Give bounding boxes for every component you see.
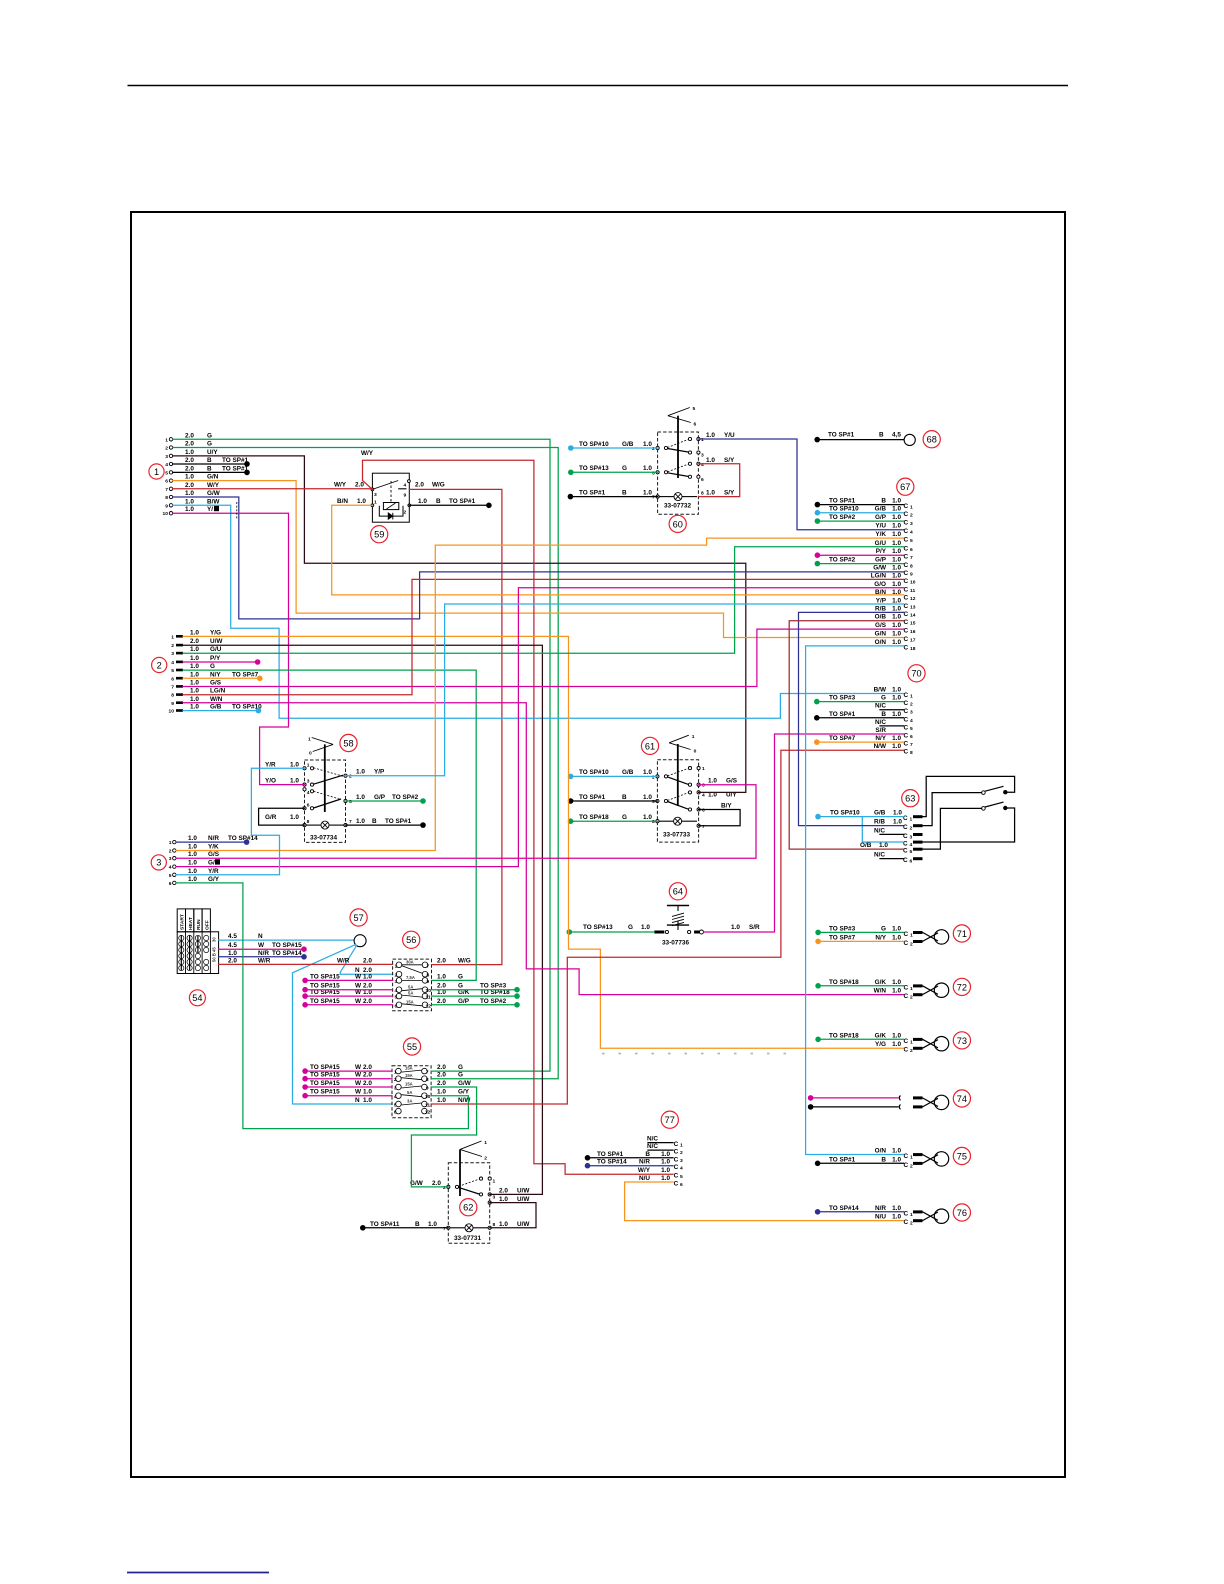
svg-text:1.0: 1.0 [892, 605, 901, 612]
svg-text:G/S: G/S [875, 622, 887, 629]
wire 54 W to SP#15 [219, 946, 307, 952]
60 right labels [701, 432, 735, 497]
svg-text:C: C [904, 741, 909, 748]
svg-text:N/C: N/C [874, 827, 885, 834]
svg-text:G: G [881, 925, 886, 932]
svg-text:1.0: 1.0 [892, 1148, 901, 1155]
svg-text:G: G [628, 924, 633, 931]
svg-text:3: 3 [156, 858, 161, 868]
svg-text:0: 0 [309, 751, 312, 757]
svg-text:10: 10 [163, 511, 169, 517]
switch 62 [447, 1140, 492, 1243]
wire G/U conn2 pin3 to 67 C6 [183, 547, 904, 653]
svg-text:TO SP#2: TO SP#2 [829, 514, 856, 521]
wire G/N conn1 pin6 to 67 C17 [173, 481, 904, 638]
svg-text:3: 3 [680, 1158, 683, 1164]
svg-text:3: 3 [701, 453, 704, 459]
svg-text:16: 16 [910, 629, 916, 635]
56 circle label [403, 931, 420, 948]
svg-text:2.0: 2.0 [363, 1072, 372, 1079]
svg-text:1.0: 1.0 [892, 597, 901, 604]
svg-text:33-07736: 33-07736 [662, 940, 689, 947]
63 pins and pads [903, 815, 923, 865]
oil pressure switch 2 [982, 802, 1008, 810]
svg-text:C: C [674, 1173, 679, 1180]
svg-text:G: G [210, 663, 215, 670]
svg-text:1.0: 1.0 [188, 844, 197, 851]
svg-text:1.0: 1.0 [892, 506, 901, 513]
svg-text:U/Y: U/Y [207, 449, 218, 456]
svg-text:TO SP#1: TO SP#1 [829, 498, 856, 505]
svg-text:W/Y: W/Y [361, 450, 374, 457]
svg-text:4: 4 [910, 718, 913, 724]
svg-text:C: C [904, 1047, 909, 1054]
svg-text:TO SP#10: TO SP#10 [579, 441, 609, 448]
svg-text:1.0: 1.0 [290, 778, 299, 785]
svg-text:2.0: 2.0 [190, 638, 199, 645]
svg-text:3A: 3A [407, 1099, 412, 1104]
connector 57 [354, 935, 366, 947]
wire 64 G to SP#13 [567, 929, 655, 935]
svg-text:2.0: 2.0 [363, 958, 372, 965]
svg-text:P/Y: P/Y [876, 548, 887, 555]
svg-text:C: C [904, 570, 909, 577]
svg-text:1: 1 [171, 634, 174, 640]
svg-text:TO SP#10: TO SP#10 [830, 810, 860, 817]
svg-text:B/Y: B/Y [721, 803, 732, 810]
svg-text:G/W: G/W [873, 564, 887, 571]
64 circle label [669, 883, 686, 900]
svg-text:5A: 5A [408, 991, 413, 996]
wire 56 pin5 W to SP#15 [302, 993, 392, 999]
svg-text:1.0: 1.0 [185, 498, 194, 505]
svg-text:63: 63 [905, 794, 915, 804]
svg-text:1: 1 [484, 1140, 487, 1146]
wire 56 pin12 G/P to SP#2 [432, 1002, 520, 1008]
wire 56 pin11 G/K to SP#18 [432, 993, 520, 999]
svg-text:5: 5 [394, 1103, 397, 1109]
svg-text:1.0: 1.0 [356, 769, 365, 776]
wire 63 C4 to switch2 [923, 808, 1015, 842]
wire G/O conn3 pin4 to 67 C11 [176, 588, 904, 867]
svg-text:17: 17 [910, 638, 916, 644]
svg-text:C: C [674, 1156, 679, 1163]
svg-text:2: 2 [910, 1221, 913, 1227]
wire conn2 pin10 G/B to SP#10 [183, 708, 261, 714]
svg-text:Y/U: Y/U [724, 432, 735, 439]
svg-text:1.0: 1.0 [879, 842, 888, 849]
svg-text:TO SP#18: TO SP#18 [829, 979, 859, 986]
svg-text:1.0: 1.0 [356, 818, 365, 825]
svg-text:Y/R: Y/R [265, 761, 276, 768]
svg-text:TO SP#14: TO SP#14 [829, 1205, 859, 1212]
svg-text:1.0: 1.0 [290, 761, 299, 768]
wire conn1 pin4 B to SP#1 [173, 461, 250, 467]
svg-text:12: 12 [426, 1003, 432, 1009]
svg-text:TO SP#15: TO SP#15 [310, 1080, 340, 1087]
wire 73 C1 G/K to SP#18 [815, 1037, 903, 1043]
svg-text:2.0: 2.0 [432, 1180, 441, 1187]
svg-text:1.0: 1.0 [363, 1089, 372, 1096]
svg-text:1: 1 [493, 1179, 496, 1185]
wire 74 C1 [808, 1095, 898, 1101]
64 labels [583, 924, 760, 931]
connector 67 labels [829, 498, 901, 646]
svg-text:G/B: G/B [210, 704, 222, 711]
svg-text:5A: 5A [408, 984, 413, 989]
svg-text:W/Y: W/Y [334, 482, 347, 489]
wire G/S conn2 pin7 to 67 C16 [183, 629, 904, 686]
wire N/W 55 pin11 to 70 C8 [431, 750, 903, 1104]
61 right labels [702, 766, 738, 830]
svg-text:2.0: 2.0 [499, 1187, 508, 1194]
55 left labels [310, 1064, 372, 1104]
svg-text:3: 3 [702, 783, 705, 789]
svg-text:1: 1 [165, 437, 168, 443]
svg-text:2: 2 [443, 1185, 446, 1191]
svg-text:3: 3 [374, 492, 377, 498]
svg-text:C: C [904, 603, 909, 610]
wire 71 C1 G to SP#3 [815, 930, 903, 936]
svg-text:B: B [879, 432, 884, 439]
wire 58 pin7 B to SP#1 [346, 822, 426, 828]
wire W/G 59 pin4 to 56 pin7 [409, 489, 502, 964]
svg-text:TO SP#1: TO SP#1 [829, 711, 856, 718]
wire 55 pin4 W to SP#15 [302, 1093, 392, 1099]
svg-text:TO SP#1: TO SP#1 [449, 498, 476, 505]
svg-text:N: N [355, 1097, 360, 1104]
svg-text:G/N: G/N [207, 474, 219, 481]
77 N/C stubs [648, 1143, 673, 1151]
svg-text:G/P: G/P [374, 794, 386, 801]
connector 70 labels [829, 687, 901, 751]
svg-text:TO SP#18: TO SP#18 [829, 1032, 859, 1039]
svg-text:W/G: W/G [458, 958, 471, 965]
svg-text:8: 8 [171, 693, 174, 699]
svg-text:B/N: B/N [337, 498, 348, 505]
wire 63 C2 to switch1 [923, 793, 982, 826]
svg-text:2: 2 [349, 774, 352, 780]
svg-text:9: 9 [910, 571, 913, 577]
svg-text:1.0: 1.0 [188, 876, 197, 883]
svg-text:C: C [904, 520, 909, 527]
svg-text:2: 2 [169, 849, 172, 855]
svg-text:B: B [436, 498, 441, 505]
svg-text:9: 9 [427, 979, 430, 985]
wire O/N 67 C18 to 75 C1 [806, 646, 904, 1155]
svg-text:77: 77 [665, 1115, 675, 1125]
svg-text:6: 6 [680, 1182, 683, 1188]
svg-text:4: 4 [680, 1166, 683, 1172]
svg-text:8: 8 [910, 564, 913, 570]
svg-text:G: G [622, 814, 627, 821]
svg-text:C: C [904, 528, 909, 535]
svg-text:C: C [904, 511, 909, 518]
svg-text:3: 3 [910, 710, 913, 716]
svg-text:1.0: 1.0 [190, 663, 199, 670]
svg-text:G: G [207, 441, 212, 448]
svg-text:G: G [881, 695, 886, 702]
svg-text:W: W [355, 1064, 362, 1071]
svg-text:G/B: G/B [622, 769, 634, 776]
svg-text:C: C [674, 1181, 679, 1188]
svg-text:2: 2 [910, 1048, 913, 1054]
svg-text:6: 6 [701, 477, 704, 483]
svg-text:O/N: O/N [875, 1148, 887, 1155]
svg-text:C: C [904, 984, 909, 991]
svg-text:C: C [904, 1210, 909, 1217]
wire LG/N conn2 pin8 to 67 C10 [183, 579, 904, 694]
svg-text:2: 2 [165, 446, 168, 452]
svg-text:1.0: 1.0 [893, 819, 902, 826]
svg-text:1.0: 1.0 [892, 639, 901, 646]
60 circle label [669, 515, 686, 532]
svg-text:1.0: 1.0 [185, 474, 194, 481]
svg-text:G/B: G/B [875, 506, 887, 513]
svg-text:P/Y: P/Y [210, 655, 221, 662]
svg-text:6: 6 [702, 808, 705, 814]
svg-text:6: 6 [395, 1003, 398, 1009]
svg-text:64: 64 [673, 887, 683, 897]
connector 77 labels [597, 1136, 670, 1182]
svg-text:W/Y: W/Y [207, 482, 220, 489]
svg-text:1.0: 1.0 [892, 614, 901, 621]
svg-text:B: B [622, 489, 627, 496]
svg-text:1: 1 [308, 737, 311, 743]
svg-text:1.0: 1.0 [190, 655, 199, 662]
svg-text:G: G [458, 1064, 463, 1071]
svg-text:1.0: 1.0 [892, 925, 901, 932]
wire conn3 pin1 N/R to SP#14 [176, 839, 249, 845]
svg-text:RUN: RUN [196, 919, 202, 930]
svg-text:2: 2 [910, 702, 913, 708]
svg-text:5: 5 [349, 799, 352, 805]
wire 61 pin5 B to SP#1 [568, 798, 658, 804]
svg-text:1.0: 1.0 [290, 814, 299, 821]
svg-text:15A: 15A [405, 1066, 413, 1071]
svg-text:Y/G: Y/G [875, 1041, 886, 1048]
svg-text:1.0: 1.0 [643, 794, 652, 801]
svg-text:S/R: S/R [875, 727, 886, 734]
svg-text:C: C [904, 692, 909, 699]
svg-text:2: 2 [404, 509, 407, 515]
svg-text:LG/N: LG/N [871, 572, 887, 579]
svg-text:8: 8 [307, 819, 310, 825]
wire N/U 77 C6 to 76 C2 [625, 1182, 904, 1221]
svg-text:8: 8 [652, 819, 655, 825]
svg-text:Y/K: Y/K [208, 844, 219, 851]
svg-text:N/Y: N/Y [210, 671, 221, 678]
wire S/R 64 to 70 C6 [704, 734, 904, 932]
svg-text:W: W [355, 998, 362, 1005]
svg-text:4,5: 4,5 [892, 432, 901, 439]
svg-text:C: C [904, 644, 909, 651]
70 circle label [908, 665, 925, 682]
svg-text:9: 9 [426, 1086, 429, 1092]
svg-text:TO SP#18: TO SP#18 [579, 814, 609, 821]
svg-text:1.0: 1.0 [363, 1097, 372, 1104]
svg-text:10: 10 [425, 1094, 431, 1100]
svg-text:7: 7 [165, 487, 168, 493]
wire 63 C1 to switch1 [923, 776, 1015, 816]
svg-text:18: 18 [910, 646, 916, 652]
wire B/N 59 pin1 to 67 C12 [332, 505, 904, 595]
svg-text:11: 11 [425, 1103, 430, 1109]
wire Y/O conn1 pin10 to 58 pin3 [173, 513, 305, 784]
svg-text:45: 45 [212, 947, 217, 952]
svg-text:15A: 15A [405, 1082, 413, 1087]
svg-text:U/W: U/W [517, 1221, 530, 1228]
svg-text:1.0: 1.0 [731, 924, 740, 931]
svg-text:6: 6 [171, 676, 174, 682]
svg-text:1.0: 1.0 [428, 1221, 437, 1228]
svg-text:G/N: G/N [875, 631, 887, 638]
svg-text:5: 5 [680, 1174, 683, 1180]
svg-text:N/U: N/U [875, 1214, 886, 1221]
svg-text:N/Y: N/Y [875, 735, 886, 742]
svg-text:1: 1 [395, 963, 398, 969]
wire 60 pin5 G to SP#13 [568, 470, 658, 476]
svg-text:1.0: 1.0 [190, 696, 199, 703]
svg-text:4: 4 [910, 842, 913, 848]
svg-text:B: B [372, 818, 377, 825]
wire 56 pin10 G to SP#3 [432, 987, 520, 993]
svg-text:Y/R: Y/R [208, 868, 219, 875]
svg-text:1.0: 1.0 [706, 457, 715, 464]
svg-text:1.0: 1.0 [190, 688, 199, 695]
svg-text:C: C [904, 594, 909, 601]
svg-text:G: G [458, 1072, 463, 1079]
svg-text:75: 75 [957, 1151, 967, 1161]
svg-text:TO SP#15: TO SP#15 [310, 1072, 340, 1079]
svg-text:2: 2 [652, 446, 655, 452]
svg-text:C: C [904, 578, 909, 585]
svg-text:U/W: U/W [210, 638, 223, 645]
wire 67 C3 G/P to SP#2 [815, 518, 904, 524]
svg-text:Y/G: Y/G [210, 629, 221, 636]
svg-text:N/C: N/C [647, 1143, 658, 1150]
svg-text:2: 2 [910, 941, 913, 947]
svg-text:1.0: 1.0 [892, 735, 901, 742]
svg-text:N: N [258, 933, 263, 940]
svg-text:1: 1 [910, 505, 913, 511]
svg-text:N/U: N/U [639, 1175, 650, 1182]
svg-text:1.0: 1.0 [643, 489, 652, 496]
58 labels [265, 761, 419, 825]
svg-text:60: 60 [673, 519, 683, 529]
svg-text:1.0: 1.0 [892, 531, 901, 538]
svg-text:67: 67 [900, 482, 910, 492]
svg-text:33-07731: 33-07731 [454, 1235, 481, 1242]
wire U/W conn2 pin2 to 62 pin3 [183, 645, 542, 1194]
svg-text:TO SP#15: TO SP#15 [310, 973, 340, 980]
svg-text:O/B: O/B [860, 842, 872, 849]
svg-text:2: 2 [395, 973, 398, 979]
svg-text:LG/N: LG/N [210, 688, 226, 695]
svg-text:C: C [904, 1162, 909, 1169]
svg-text:1: 1 [910, 694, 913, 700]
svg-text:TO SP#14: TO SP#14 [272, 950, 302, 957]
svg-text:C: C [904, 1038, 909, 1045]
svg-text:G/B: G/B [622, 441, 634, 448]
svg-text:1: 1 [680, 1143, 683, 1149]
svg-text:1: 1 [169, 840, 172, 846]
svg-text:1: 1 [910, 932, 913, 938]
wire 63 C1 G/B to SP#10 [815, 814, 904, 820]
svg-text:2: 2 [394, 1077, 397, 1083]
wire 60 pin2 G/B to SP#10 [568, 445, 658, 451]
svg-text:TO SP#1: TO SP#1 [385, 818, 412, 825]
svg-text:3: 3 [910, 521, 913, 527]
svg-text:N/C: N/C [875, 703, 886, 710]
svg-text:1.0: 1.0 [643, 769, 652, 776]
svg-text:2: 2 [157, 660, 162, 670]
63 labels [830, 810, 902, 859]
svg-text:G/P: G/P [875, 514, 887, 521]
svg-text:3: 3 [165, 454, 168, 460]
svg-text:1.0: 1.0 [892, 1041, 901, 1048]
wire 58 pin5 G/P to SP#2 [346, 798, 426, 804]
svg-text:2.0: 2.0 [437, 998, 446, 1005]
ignition switch 54 table [177, 909, 218, 974]
wire W/Y conn1 pin7 to 59 pin3 [173, 488, 373, 490]
svg-text:W/R: W/R [337, 958, 350, 965]
svg-text:C: C [904, 537, 909, 544]
svg-text:1.0: 1.0 [892, 622, 901, 629]
svg-text:C: C [904, 586, 909, 593]
svg-text:TO SP#1: TO SP#1 [579, 489, 606, 496]
svg-text:TO SP#7: TO SP#7 [829, 934, 856, 941]
svg-text:1.0: 1.0 [185, 490, 194, 497]
svg-text:1.0: 1.0 [892, 687, 901, 694]
svg-text:2.0: 2.0 [437, 1072, 446, 1079]
svg-text:7: 7 [426, 1070, 429, 1076]
connector 3 pins [169, 840, 176, 887]
top rule [128, 85, 1069, 87]
svg-text:4.5: 4.5 [228, 933, 237, 940]
svg-text:TO SP#3: TO SP#3 [829, 925, 856, 932]
svg-text:C: C [904, 636, 909, 643]
svg-text:14: 14 [910, 612, 916, 618]
svg-text:N/W: N/W [874, 743, 887, 750]
svg-text:1.0: 1.0 [185, 449, 194, 456]
connector 1 [149, 464, 164, 479]
svg-text:1: 1 [701, 437, 704, 443]
svg-text:G/W: G/W [458, 1080, 472, 1087]
57 circle label [350, 909, 367, 926]
svg-text:C: C [904, 628, 909, 635]
svg-text:1.0: 1.0 [643, 465, 652, 472]
svg-text:C: C [904, 993, 909, 1000]
svg-text:W: W [355, 973, 362, 980]
svg-text:1.0: 1.0 [188, 860, 197, 867]
svg-text:6: 6 [910, 734, 913, 740]
wire 54 N/R to SP#14 [219, 954, 307, 960]
svg-text:TO SP#15: TO SP#15 [310, 1064, 340, 1071]
wire 70 C7 N/Y to SP#7 [814, 739, 904, 745]
svg-text:58: 58 [343, 738, 353, 748]
wire B/W conn1 pin9 to 70 C1 [173, 505, 904, 718]
svg-text:1.0: 1.0 [661, 1167, 670, 1174]
svg-text:72: 72 [957, 982, 967, 992]
svg-text:4.5: 4.5 [228, 942, 237, 949]
svg-text:9: 9 [171, 701, 174, 707]
svg-text:3: 3 [171, 651, 174, 657]
svg-text:73: 73 [957, 1036, 967, 1046]
svg-text:G/S: G/S [726, 778, 738, 785]
svg-text:3: 3 [910, 834, 913, 840]
svg-text:2.0: 2.0 [185, 457, 194, 464]
